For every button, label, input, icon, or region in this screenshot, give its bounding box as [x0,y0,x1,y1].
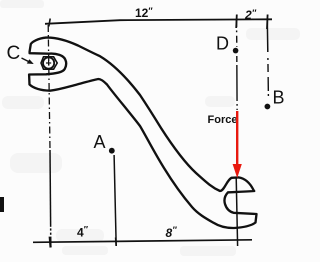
B centerline dashed segment [267,58,270,96]
svg-text:C: C [7,43,21,64]
B centerline solid segment [266,20,269,52]
svg-text:Force: Force [208,114,238,126]
top dimension tick middle [235,15,238,29]
D centerline lower segment [236,56,238,110]
nut center cross [48,60,50,65]
left vertical line solid to bottom [49,150,52,247]
C leader arrow [22,58,31,63]
red force arrowhead [233,164,242,178]
top dimension line [45,19,272,24]
bottom dimension tick middle [115,238,118,247]
nut bolt circle [43,57,54,68]
vertical line through right wrench head [236,177,237,246]
hex nut at point C [41,57,57,69]
node D [233,48,239,54]
left edge scan bar artifact [0,197,4,212]
node A [109,148,115,154]
top dimension tick left [49,19,50,27]
svg-text:A: A [94,132,106,152]
A vertical extension line [114,155,116,246]
node B [265,104,271,110]
left centerline (dash-dot) through C head [48,25,50,150]
wrench body outline [29,38,256,228]
bottom dimension line [33,240,252,243]
svg-text:B: B [273,88,285,108]
svg-text:D: D [216,34,229,54]
dash gaps on left line near bottom [49,231,52,233]
red force arrow shaft [236,111,238,168]
D centerline upper dash-dot segment [236,20,238,47]
bottom dimension tick left [49,237,52,248]
top dimension tick right [266,15,269,30]
